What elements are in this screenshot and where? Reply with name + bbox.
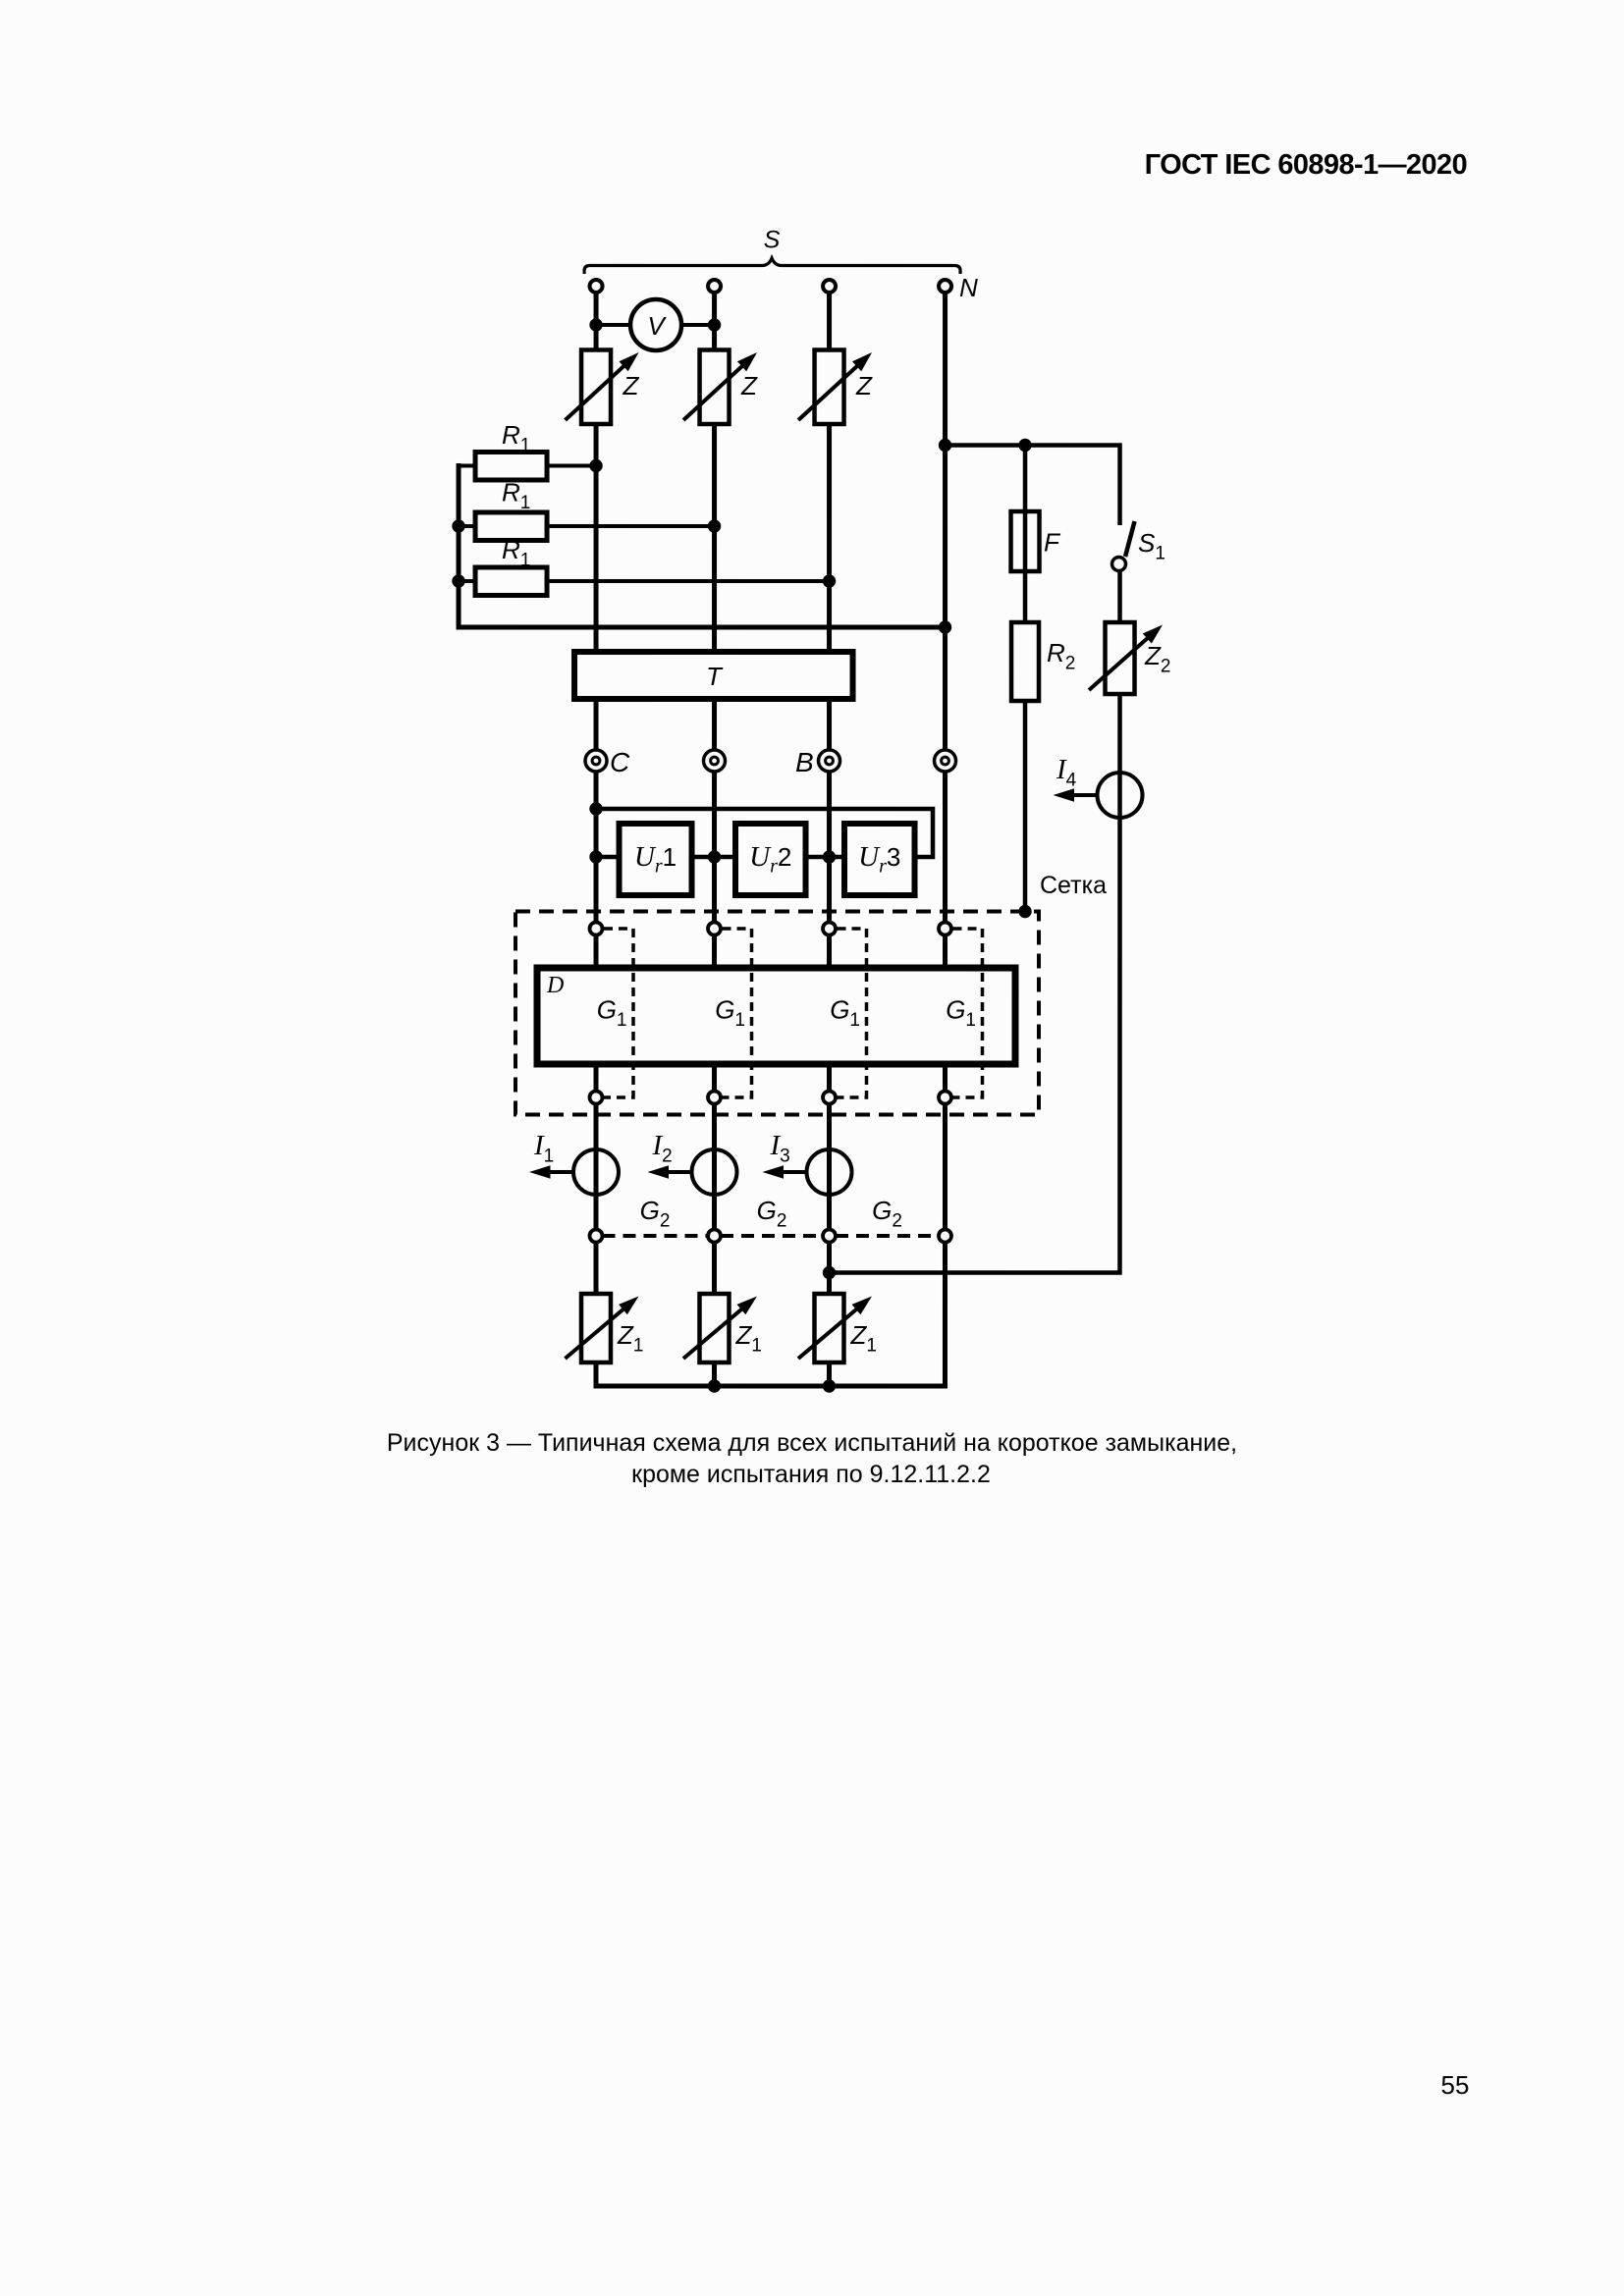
svg-text:55: 55 — [1440, 2070, 1469, 2100]
svg-text:Z: Z — [855, 371, 873, 400]
svg-text:Рисунок 3 — Типичная схема для: Рисунок 3 — Типичная схема для всех испы… — [387, 1429, 1237, 1457]
svg-text:Z: Z — [740, 371, 758, 400]
svg-text:N: N — [959, 273, 978, 302]
svg-text:C: C — [610, 747, 630, 777]
svg-text:S: S — [764, 226, 781, 253]
svg-text:B: B — [795, 747, 814, 777]
svg-text:ГОСТ IEC 60898-1—2020: ГОСТ IEC 60898-1—2020 — [1145, 149, 1467, 181]
svg-text:кроме испытания по 9.12.11.2.2: кроме испытания по 9.12.11.2.2 — [631, 1461, 991, 1488]
svg-text:Сетка: Сетка — [1040, 872, 1107, 899]
svg-text:V: V — [647, 311, 667, 341]
svg-text:T: T — [706, 662, 724, 691]
svg-text:D: D — [546, 973, 564, 998]
svg-text:F: F — [1044, 528, 1061, 558]
svg-text:Z: Z — [623, 371, 640, 400]
